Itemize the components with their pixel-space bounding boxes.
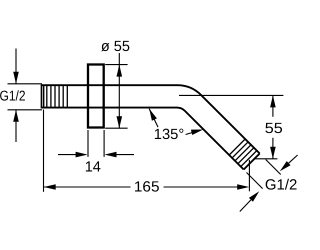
arrowhead 135 leader2 (191, 130, 203, 136)
arrowhead dia55 down (117, 116, 123, 128)
svg-text:ø 55: ø 55 (101, 39, 130, 55)
dimension G1/2 right leader lower (240, 200, 251, 212)
wire: horizontal pipe top edge with bend arc into diagonal (42, 85, 260, 153)
wire: pipe left thread runout line (43, 85, 45, 107)
svg-text:55: 55 (265, 121, 283, 137)
dimension 165 (44, 110, 250, 192)
arrowhead G1/2 left up (13, 110, 19, 122)
thread hatch outlet (229, 139, 257, 167)
arrowhead 55 down (270, 147, 276, 159)
dimension G1/2 right leader upper (289, 155, 298, 163)
dimension 14 (58, 130, 134, 157)
arrowhead G1/2 right lower (249, 191, 259, 202)
arrowhead 165 left (44, 184, 56, 190)
dimension 55 right extension lines (179, 95, 283, 158)
svg-text:G1/2: G1/2 (0, 89, 26, 105)
dimension dia 55 (105, 53, 127, 128)
arrowhead 14 left-pointing (105, 152, 117, 158)
thread hatch left pipe (47, 86, 68, 108)
arrowhead G1/2 left down (13, 72, 19, 84)
dimension G1/2 right extension line lower (247, 173, 263, 189)
dimension G1/2 right extension line upper (266, 160, 281, 175)
wire: outlet end face (244, 154, 260, 170)
wire: pipe left end face (41, 84, 43, 108)
arrowhead 14 right-pointing (76, 152, 88, 158)
svg-text:135°: 135° (154, 127, 184, 143)
dimension G1/2 left extension lines (8, 49, 43, 143)
arrowhead G1/2 right upper (280, 161, 291, 171)
arrowhead 165 right (237, 184, 249, 190)
svg-text:165: 165 (134, 179, 160, 195)
arrowhead dia55 up (117, 65, 123, 77)
dimension 135 degrees leader to horizontal pipe (149, 109, 158, 127)
flange wall plate (88, 65, 104, 128)
arrowhead 135 leader1 (149, 109, 157, 121)
dimension 135 degrees leader to diagonal pipe (186, 133, 192, 135)
wire: horizontal pipe bottom edge with bend arc into diagonal (42, 108, 244, 170)
svg-text:14: 14 (85, 159, 101, 175)
svg-text:G1/2: G1/2 (265, 178, 297, 194)
arrowhead 55 up (270, 95, 276, 107)
